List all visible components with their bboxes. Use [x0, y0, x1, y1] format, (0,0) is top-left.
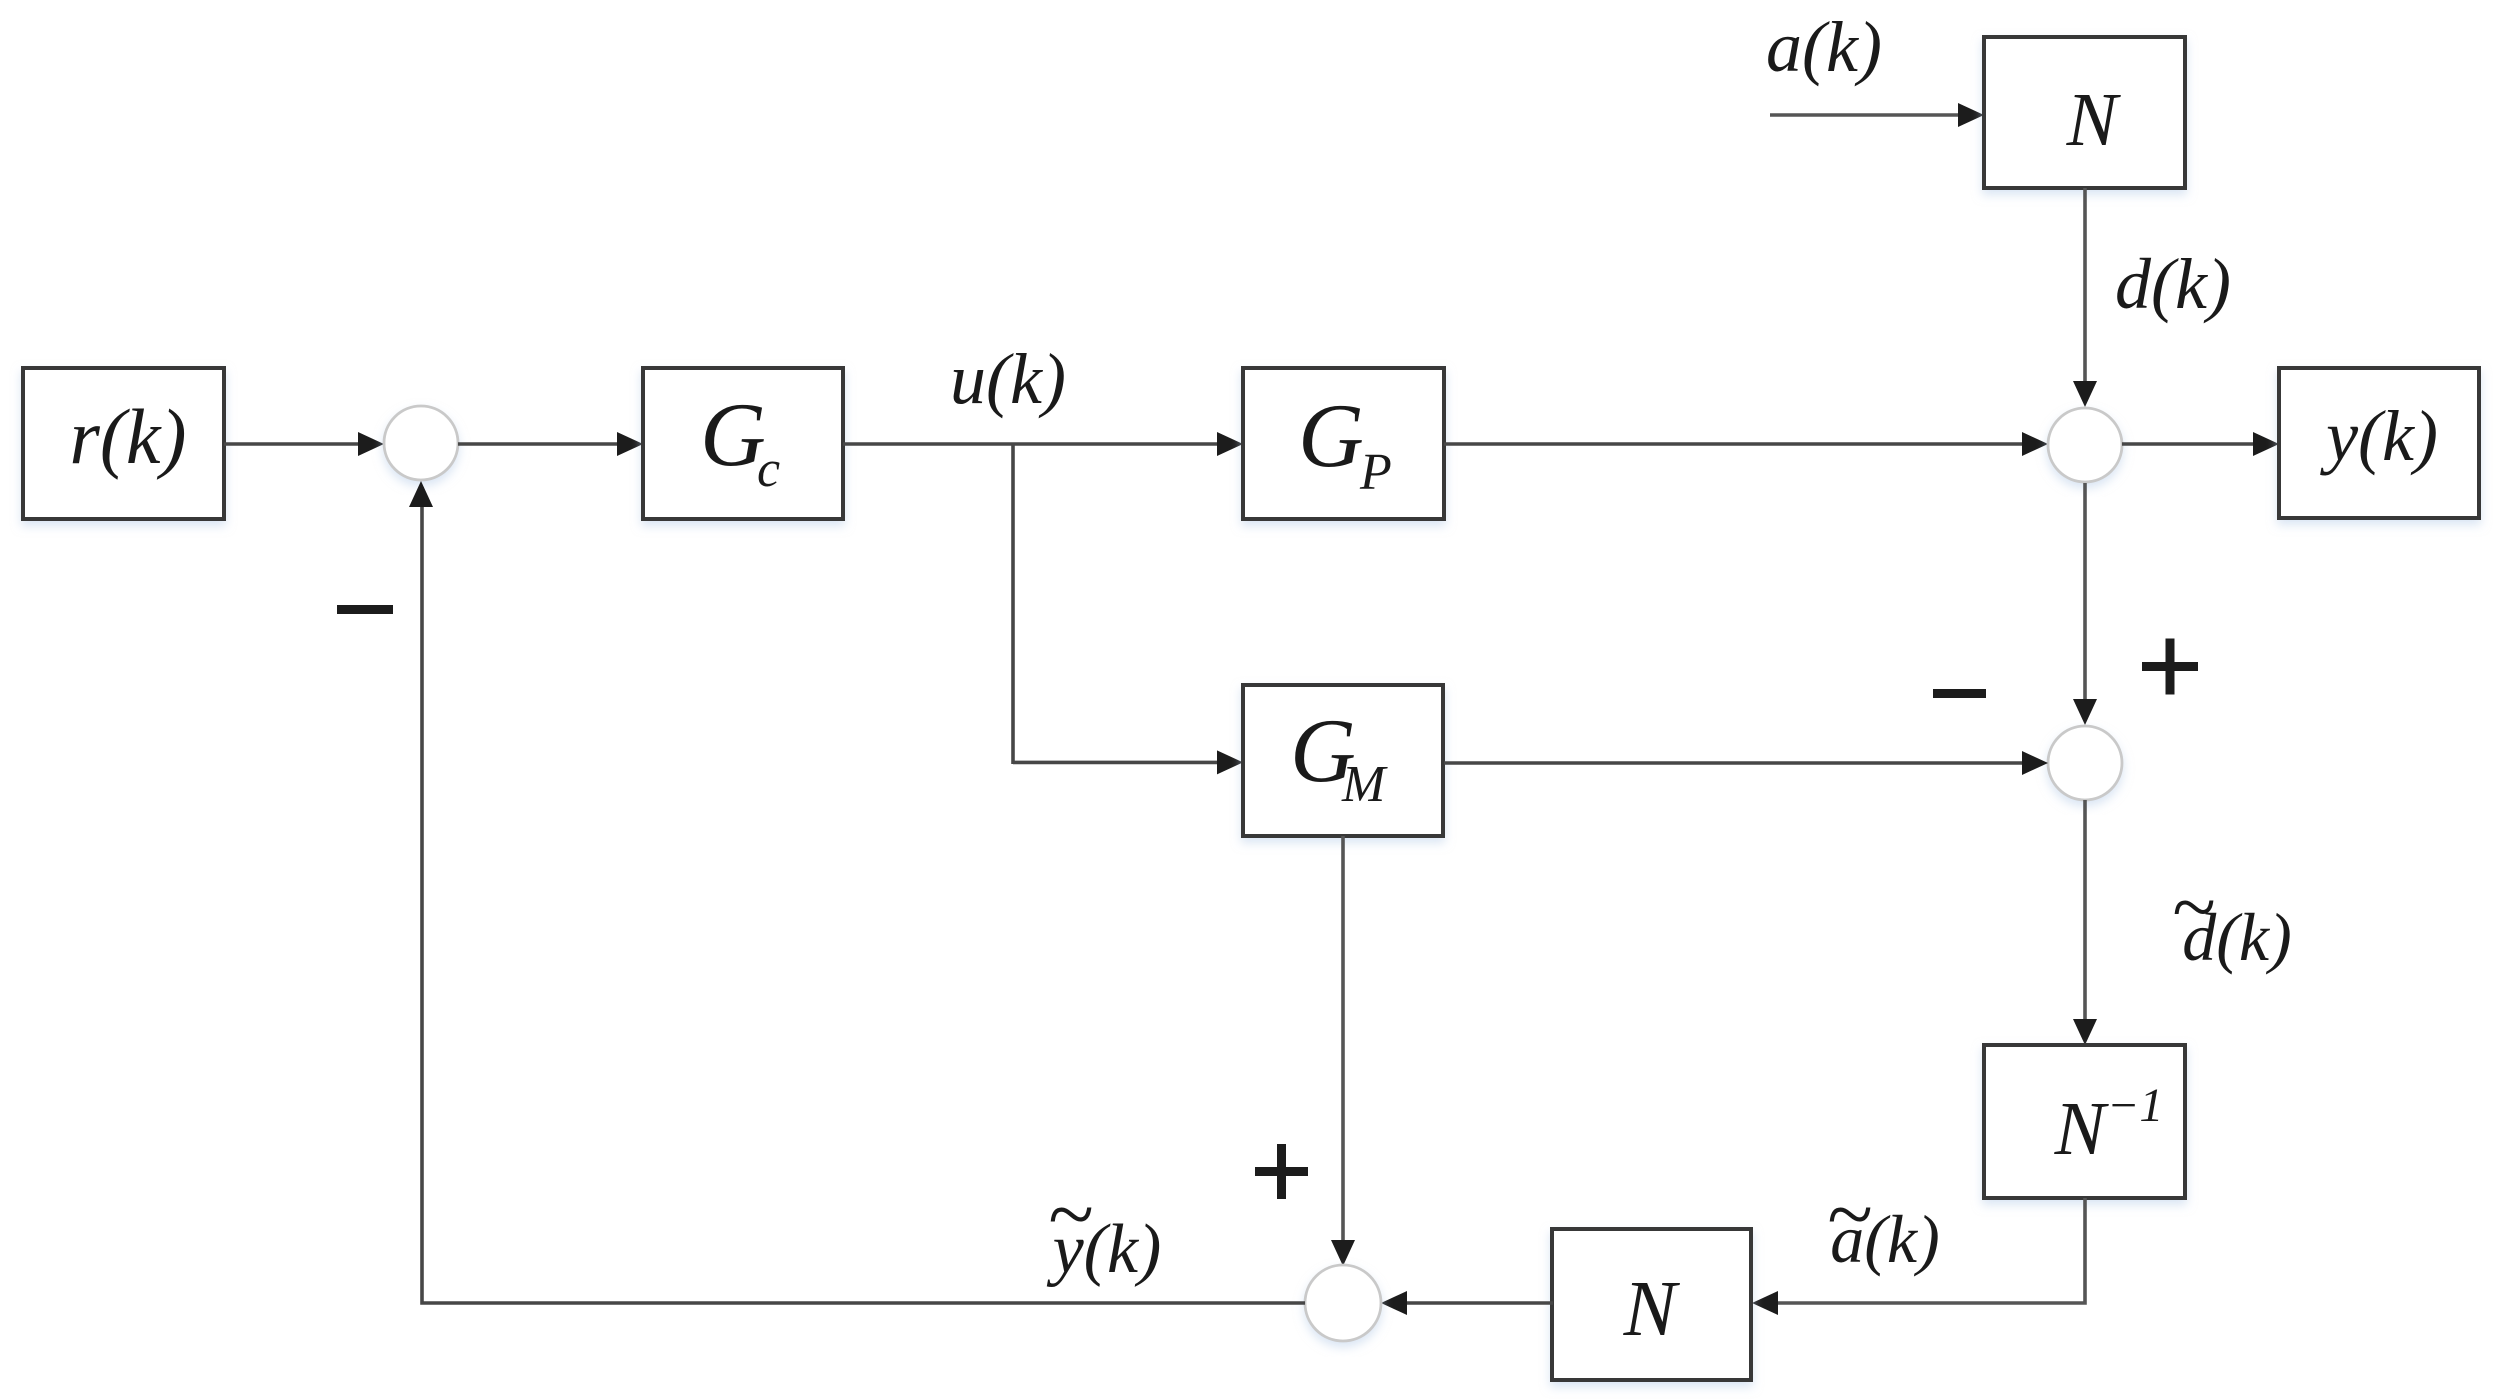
summing junction S4 [1305, 1265, 1381, 1341]
block N inverse [1984, 1045, 2185, 1198]
block GM [1243, 685, 1443, 836]
svg-text:P: P [1359, 444, 1392, 501]
svg-text:d(k): d(k) [2115, 244, 2231, 324]
svg-text:G: G [1298, 385, 1364, 486]
wire N top to sum S2 [2073, 188, 2097, 407]
minus label at S1 [337, 605, 393, 614]
svg-text:~: ~ [2171, 864, 2214, 952]
wire S2 to y(k) [2122, 432, 2279, 456]
summing junction S2 [2048, 408, 2122, 482]
wire GM down to sum S4 [1331, 836, 1355, 1266]
block N top [1984, 37, 2185, 188]
minus label left of S3 [1933, 689, 1986, 698]
wire N inverse down and left to N bottom [1752, 1198, 2085, 1315]
label d tilde (k) [2171, 864, 2291, 975]
block r(k) [23, 368, 224, 519]
summing junction S1 [384, 406, 458, 480]
branch wire u(k) down to GM [1013, 444, 1243, 774]
svg-text:~: ~ [1047, 1168, 1092, 1261]
block Gc [643, 368, 843, 519]
svg-text:G: G [700, 384, 766, 485]
block y(k) [2279, 368, 2479, 518]
wire S3 down to N inverse [2073, 800, 2097, 1045]
svg-text:−1: −1 [2107, 1079, 2163, 1132]
summing junction S3 [2048, 726, 2122, 800]
wire Gc to GP with branch node [843, 432, 1243, 456]
wire a(k) to N top [1770, 103, 1984, 127]
svg-text:N: N [2054, 1087, 2110, 1171]
plus label above S4 [1255, 1144, 1308, 1199]
wire r(k) to sum S1 [224, 432, 384, 456]
svg-text:N: N [1623, 1266, 1681, 1353]
svg-text:u(k): u(k) [950, 339, 1066, 419]
wire N bottom to sum S4 [1381, 1291, 1553, 1315]
feedback wire S4 to S1 [409, 481, 1305, 1303]
block N bottom [1552, 1229, 1751, 1380]
block GP [1243, 368, 1444, 519]
label a tilde (k) [1826, 1168, 1939, 1277]
svg-text:y(k): y(k) [2319, 396, 2438, 476]
svg-text:r(k): r(k) [70, 393, 187, 480]
wire S2 down to sum S3 [2073, 483, 2097, 725]
svg-text:~: ~ [1826, 1168, 1871, 1261]
svg-text:N: N [2066, 78, 2122, 162]
wire GM to sum S3 [1444, 751, 2048, 775]
plus label above right of S3 [2142, 639, 2198, 695]
label y tilde (k) [1047, 1168, 1162, 1288]
wire GP to sum S2 [1444, 432, 2048, 456]
svg-text:a(k): a(k) [1766, 7, 1882, 87]
svg-text:M: M [1341, 756, 1388, 813]
svg-text:c: c [757, 441, 780, 498]
wire S1 to Gc [458, 432, 643, 456]
